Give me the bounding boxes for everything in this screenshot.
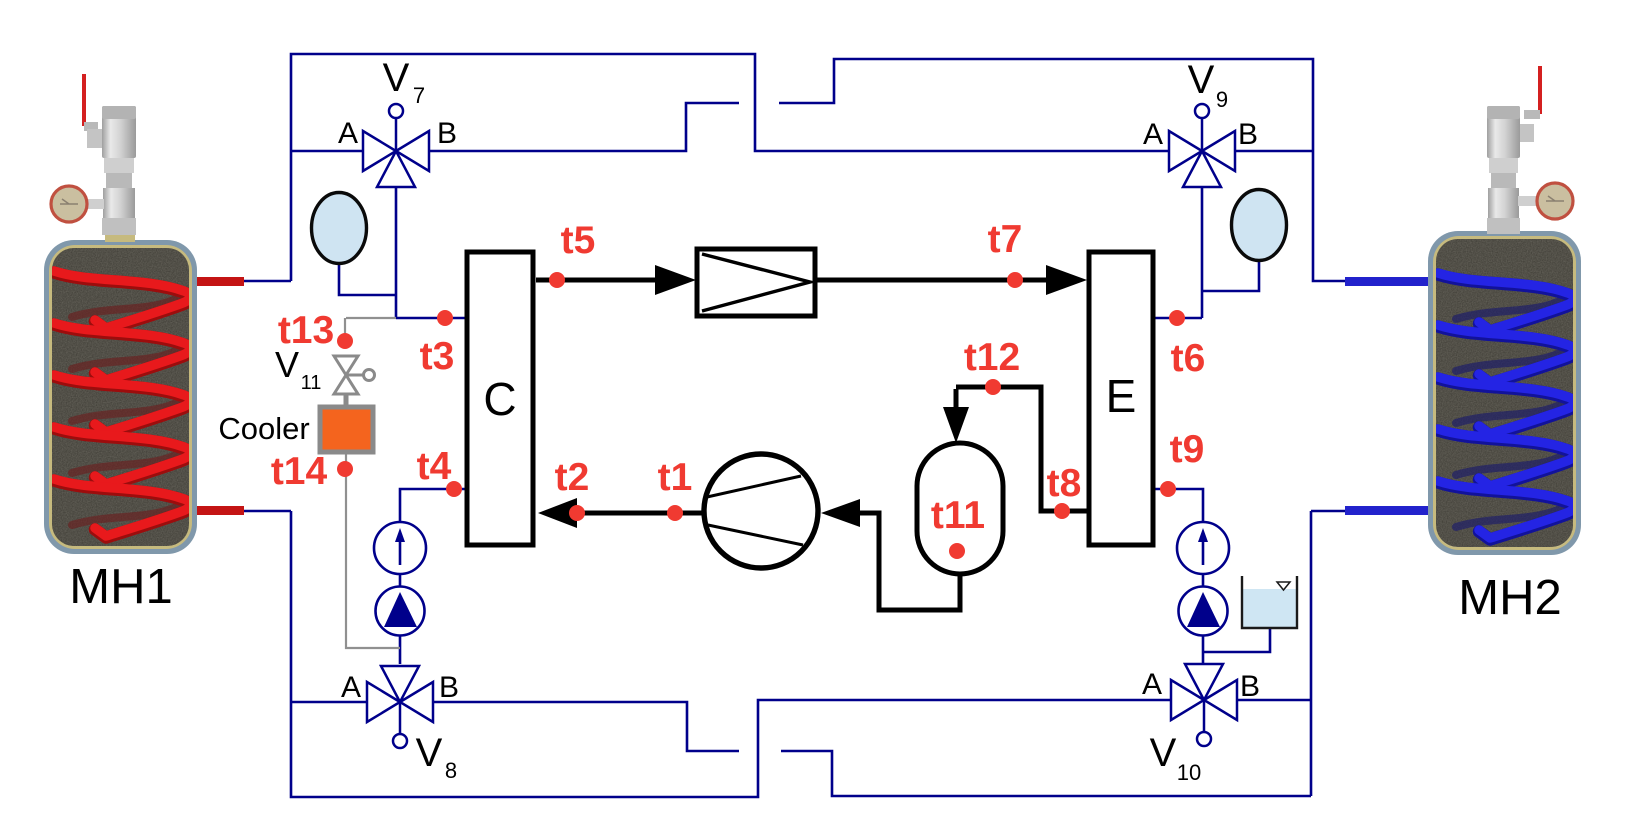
svg-text:MH2: MH2 — [1458, 571, 1561, 625]
svg-text:A: A — [1142, 668, 1162, 701]
svg-text:B: B — [437, 117, 457, 150]
svg-text:10: 10 — [1177, 760, 1201, 785]
svg-text:9: 9 — [1216, 87, 1228, 112]
svg-text:B: B — [439, 671, 459, 704]
svg-text:t7: t7 — [988, 218, 1023, 261]
svg-text:11: 11 — [301, 372, 322, 394]
svg-text:t11: t11 — [931, 494, 985, 537]
svg-text:A: A — [338, 117, 358, 150]
svg-text:B: B — [1238, 118, 1258, 151]
svg-text:MH1: MH1 — [69, 560, 172, 614]
svg-text:V: V — [416, 731, 443, 775]
svg-text:t2: t2 — [555, 456, 590, 499]
svg-text:Cooler: Cooler — [218, 411, 309, 446]
svg-text:E: E — [1106, 370, 1137, 422]
svg-text:C: C — [483, 373, 516, 425]
svg-text:V: V — [275, 344, 299, 385]
svg-text:8: 8 — [445, 758, 457, 783]
svg-text:B: B — [1240, 670, 1260, 703]
svg-text:t1: t1 — [658, 456, 693, 499]
svg-text:A: A — [341, 671, 361, 704]
svg-text:t14: t14 — [271, 450, 328, 493]
svg-text:t12: t12 — [964, 336, 1020, 379]
svg-text:V: V — [1150, 731, 1177, 775]
svg-text:t3: t3 — [420, 335, 455, 378]
svg-text:A: A — [1143, 118, 1163, 151]
svg-text:V: V — [383, 56, 410, 100]
svg-text:t9: t9 — [1170, 428, 1205, 471]
svg-text:t6: t6 — [1171, 337, 1206, 380]
svg-text:7: 7 — [413, 83, 425, 108]
svg-text:t4: t4 — [417, 445, 452, 488]
svg-text:V: V — [1188, 58, 1215, 102]
svg-text:t5: t5 — [561, 219, 596, 262]
svg-text:t8: t8 — [1047, 462, 1082, 505]
